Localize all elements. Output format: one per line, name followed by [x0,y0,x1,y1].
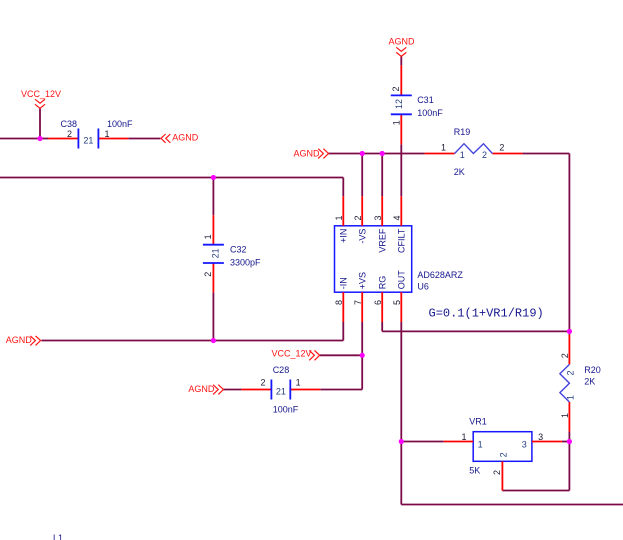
svg-text:1: 1 [566,395,576,400]
svg-text:21: 21 [210,248,220,258]
svg-text:2: 2 [560,353,570,358]
svg-text:3: 3 [373,215,383,220]
resistor R19 [425,144,523,154]
capacitor C32 [203,215,224,292]
svg-text:2: 2 [203,272,213,277]
svg-text:2: 2 [482,150,487,160]
wire pin 7 node down [361,355,363,389]
svg-text:2: 2 [498,452,508,457]
svg-text:AGND: AGND [188,384,215,394]
svg-text:21: 21 [83,136,93,146]
svg-text:100nF: 100nF [107,119,133,129]
svg-text:1: 1 [105,129,110,139]
wire VR1 pin 3 to R20 node [562,441,570,443]
wire pin 7 drop [361,322,363,355]
wire AGND row horizontal [328,153,424,155]
svg-text:-IN: -IN [339,277,349,289]
svg-text:VREF: VREF [378,228,388,253]
wire OUT down to bottom rail [400,442,402,505]
svg-text:AGND: AGND [6,335,33,345]
resistor R20 [560,335,570,432]
wire AGND row to pin 2 [361,154,363,197]
wire AGND top stub under symbol [400,56,402,65]
svg-text:VCC_12V: VCC_12V [21,89,61,99]
svg-text:L1: L1 [53,533,63,540]
svg-text:-VS: -VS [358,229,368,244]
wire R19 right to corner [522,153,569,155]
wire VR1 pin 2 bottom horizontal [502,490,569,492]
svg-text:+IN: +IN [339,229,349,243]
svg-text:2: 2 [260,378,265,388]
off-page connector AGND row [318,149,328,159]
wire pin 8 drop [342,322,344,341]
wire C32 top stub [212,178,214,216]
svg-text:2: 2 [353,215,363,220]
capacitor C31 [391,65,412,144]
svg-text:21: 21 [276,387,286,397]
svg-text:100nF: 100nF [417,108,443,118]
svg-text:3: 3 [522,440,527,450]
svg-text:AGND: AGND [294,148,321,158]
svg-text:RG: RG [378,276,388,290]
wire OUT vertical [400,322,402,442]
svg-text:AGND: AGND [172,133,199,143]
potentiometer VR1 [444,432,562,491]
svg-text:AGND: AGND [389,37,416,47]
wire bottom rail to right edge [401,504,623,506]
svg-text:+VS: +VS [358,272,368,289]
wire +IN net vertical to pin 1 [342,178,344,197]
svg-text:U6: U6 [417,282,429,292]
svg-text:5: 5 [392,300,402,305]
svg-text:VCC_12V: VCC_12V [272,348,312,358]
svg-text:AD628ARZ: AD628ARZ [417,270,463,280]
svg-text:2: 2 [391,86,401,91]
svg-text:VR1: VR1 [469,417,487,427]
junction at C32 bottom [211,338,216,343]
svg-text:OUT: OUT [397,270,407,290]
capacitor C28 [241,380,320,400]
junction at pin 2 [360,151,365,156]
svg-text:1: 1 [461,432,466,442]
svg-text:2K: 2K [454,167,465,177]
svg-text:7: 7 [353,300,363,305]
wire OUT to VR1 pin 1 [401,441,443,443]
svg-text:2K: 2K [584,377,595,387]
svg-text:1: 1 [478,440,483,450]
svg-text:1: 1 [560,413,570,418]
svg-text:3300pF: 3300pF [230,258,261,268]
svg-text:4: 4 [392,215,402,220]
op-amp U6 AD628ARZ [335,196,412,322]
wire left rail to VCC junction [0,138,48,140]
wire R20 bottom stub [568,432,570,442]
wire AGND to C28 [223,389,241,391]
wire VCC_12V drop [39,108,41,138]
wire R20 top stub [568,331,570,334]
wire VCC_12V to pin 7 node [320,354,363,356]
svg-text:G=0.1(1+VR1/R19): G=0.1(1+VR1/R19) [429,307,544,321]
wire +IN net horizontal [0,177,343,179]
svg-text:6: 6 [373,300,383,305]
svg-text:2: 2 [492,470,502,475]
junction at OUT VR1 [399,439,404,444]
svg-text:C38: C38 [61,119,78,129]
off-page connector VCC_12V [309,350,319,360]
wire RG horizontal to R20 node [382,330,569,332]
svg-text:2: 2 [566,370,576,375]
power symbol AGND top middle [396,47,406,56]
svg-text:1: 1 [391,120,401,125]
power symbol VCC_12V top left [35,99,45,108]
junction at VCC pin 7 [360,353,365,358]
junction at R20 VR1 [567,439,572,444]
off-page connector AGND top left [161,134,170,143]
svg-text:2: 2 [499,143,504,153]
svg-text:8: 8 [334,300,344,305]
off-page connector AGND left [30,336,40,346]
wire AGND bottom rail [41,340,343,342]
svg-text:C31: C31 [417,95,434,105]
off-page connector AGND C28 [213,385,223,395]
wire C38 right to AGND connector [128,138,160,140]
svg-text:1: 1 [460,150,465,160]
svg-text:C32: C32 [230,245,247,255]
svg-text:1: 1 [334,215,344,220]
wire C32 bottom stub [212,292,214,340]
svg-text:100nF: 100nF [273,405,299,415]
svg-text:CFILT: CFILT [397,228,407,253]
svg-text:C28: C28 [273,365,290,375]
svg-text:3: 3 [538,432,543,442]
svg-text:R19: R19 [454,127,471,137]
svg-text:2: 2 [67,129,72,139]
junction at pin 3 [380,151,385,156]
svg-text:5K: 5K [469,466,480,476]
junction at VCC/C38 [37,136,42,141]
svg-text:1: 1 [203,234,213,239]
capacitor C38 [48,129,128,149]
svg-text:1: 1 [296,378,301,388]
wire C31 bottom to pin 4 [400,144,402,196]
wire AGND row to pin 3 [381,154,383,197]
wire RG pin drop [381,322,383,331]
wire right vertical R19 to RG node [568,154,570,332]
junction at C32 top [211,175,216,180]
wire R20 node down [568,442,570,491]
junction at RG R20 [567,329,572,334]
svg-text:R20: R20 [584,365,601,375]
svg-text:1: 1 [441,143,446,153]
wire C28 right to pin 7 node [320,389,362,391]
svg-text:12: 12 [394,99,404,109]
